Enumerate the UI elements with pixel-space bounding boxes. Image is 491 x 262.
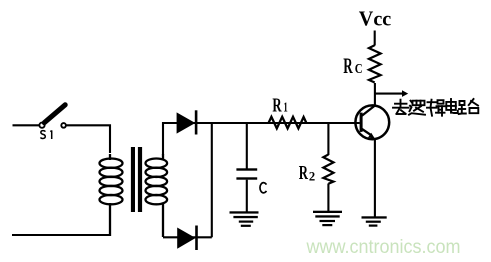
transformer core bars — [131, 147, 135, 212]
label S1 — [41, 130, 52, 139]
label 去逻辑电路 (to logic circuit) hand-drawn glyphs — [393, 99, 478, 116]
capacitor C plates — [236, 168, 257, 170]
glyph 逻 — [409, 101, 425, 115]
wire: rectifier output rail — [211, 123, 213, 237]
transistor Q1 collector stroke — [362, 105, 376, 116]
wire: AC input bottom lead — [12, 234, 110, 236]
wire: emitter down to ground — [374, 138, 376, 217]
switch S1 fixed contact — [61, 123, 66, 128]
ground (emitter) — [362, 216, 387, 226]
svg-text:2: 2 — [309, 168, 315, 183]
svg-text:R: R — [343, 53, 353, 78]
svg-text:1: 1 — [283, 100, 288, 115]
diode D1 (top) — [177, 110, 198, 134]
inductor: transformer primary winding — [100, 154, 123, 236]
resistor R2 — [323, 155, 333, 184]
transistor Q1 circle — [355, 105, 389, 139]
label C — [260, 183, 266, 193]
glyph 去 — [393, 100, 409, 114]
svg-text:www.cntronics.com: www.cntronics.com — [306, 236, 461, 258]
wire: R2 to ground — [327, 184, 329, 212]
diode D2 (bottom) — [177, 226, 198, 251]
wire: secondary bottom to rectifier — [163, 236, 212, 238]
wire: R2 branch lead — [327, 123, 329, 155]
glyph 电 — [446, 99, 458, 113]
transistor Q1 base bar — [360, 113, 363, 132]
wire: collector up to Rc — [374, 83, 376, 106]
switch S1 pivot contact — [39, 123, 44, 128]
wire: Vcc lead — [374, 31, 376, 46]
resistor Rc — [369, 45, 381, 82]
capacitor C lead — [246, 123, 248, 169]
resistor R1 — [269, 117, 307, 129]
wire: switch to transformer primary top — [66, 125, 110, 153]
ground (capacitor) — [230, 211, 259, 227]
svg-text:C: C — [355, 61, 363, 76]
wire: output branch with arrow — [375, 93, 403, 95]
glyph 辑 — [427, 100, 445, 116]
wire: secondary top to rectifier — [163, 123, 360, 155]
switch S1 lever (open) — [44, 105, 65, 123]
ground (R2) — [313, 211, 342, 227]
glyph 路 — [459, 99, 479, 114]
wire: capacitor to ground — [246, 180, 248, 212]
svg-text:R: R — [272, 94, 282, 116]
svg-text:Vcc: Vcc — [359, 6, 391, 30]
inductor: transformer secondary winding — [146, 154, 168, 237]
svg-text:R: R — [299, 162, 309, 184]
wire: AC input top lead — [13, 124, 40, 126]
transistor Q1 emitter stroke with arrow — [362, 129, 371, 135]
